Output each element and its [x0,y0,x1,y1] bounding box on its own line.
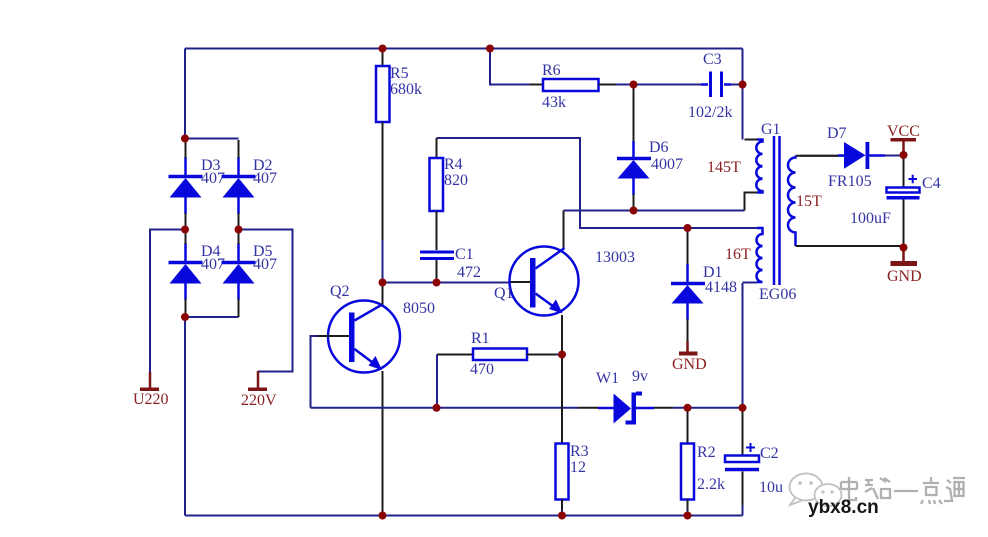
node D6 bottom [630,207,638,215]
wire top rail [185,48,743,50]
diode D2 [222,140,256,229]
node R5 top [379,45,387,53]
wire R6 to C3 node [616,84,701,86]
svg-text:13003: 13003 [595,249,635,266]
svg-text:C2: C2 [760,445,779,462]
svg-text:8050: 8050 [403,300,435,317]
node D1 top [684,224,692,232]
node VCC [900,151,908,159]
svg-text:EG06: EG06 [759,286,796,303]
wire bridge bottom horizontal [185,316,239,318]
svg-text:U220: U220 [133,391,169,408]
resistor R1 [437,349,562,408]
ground under D1 [679,341,698,356]
svg-text:4148: 4148 [705,279,737,296]
resistor R5 [376,49,390,283]
svg-text:100uF: 100uF [850,210,891,227]
node R6 tap [486,45,494,53]
svg-text:W1: W1 [596,370,619,387]
svg-text:Q2: Q2 [330,283,350,300]
diode D6 [617,85,651,211]
power VCC [891,138,917,155]
transformer primary G1 winding [745,140,763,211]
diode D3 [169,140,203,229]
svg-text:15T: 15T [796,193,822,210]
svg-text:D7: D7 [827,125,847,142]
capacitor C2 [725,408,759,516]
svg-text:12: 12 [570,459,586,476]
svg-text:407: 407 [253,170,277,187]
svg-text:Q1: Q1 [494,285,514,302]
capacitor C3 [701,72,743,98]
svg-text:R2: R2 [697,444,716,461]
transformer core [774,136,780,285]
svg-text:C3: C3 [703,51,722,68]
terminal U220 [140,372,159,391]
node Q2 emitter bottom [379,512,387,520]
svg-text:407: 407 [201,256,225,273]
watermark wechat icon [790,474,842,507]
node bridge top [181,135,189,143]
transformer feedback 16T winding [743,228,763,283]
node R2 bottom [684,512,692,520]
diode D4 [169,230,203,317]
resistor R2 [681,408,694,516]
svg-text:9v: 9v [632,368,648,385]
svg-text:43k: 43k [542,94,566,111]
svg-text:10u: 10u [759,479,783,496]
wire left rail upper [184,49,186,140]
node R2 top [684,404,692,412]
svg-text:470: 470 [470,361,494,378]
node C1 bottom [433,279,441,287]
svg-text:R4: R4 [444,156,463,173]
svg-text:R6: R6 [542,62,561,79]
node Q2 collector [379,279,387,287]
node GND C4 [900,244,908,252]
transistor Q1 [510,247,579,355]
svg-text:ybx8.cn: ybx8.cn [808,497,879,518]
node C2 top [739,404,747,412]
watermark text dian-lu-yi-dian-tong (vector strokes) [841,477,965,504]
svg-text:2.2k: 2.2k [697,476,725,493]
svg-text:220V: 220V [241,392,277,409]
node C3 right [739,81,747,89]
wire bottom feedback rail y408 [311,407,579,409]
wire R4 top to 16T feedback [437,138,758,228]
diode D5 [222,230,256,317]
wire Q2 base down [311,336,319,408]
svg-text:472: 472 [457,264,481,281]
svg-text:VCC: VCC [887,123,920,140]
node AC left [181,226,189,234]
ground below C4 [891,248,918,267]
node D6 top [630,81,638,89]
svg-text:C1: C1 [455,246,474,263]
resistor R4 [430,138,444,250]
node R1 left [433,404,441,412]
diode D7 [800,142,904,169]
wire right vertical from top rail to transformer [742,49,744,140]
svg-text:4007: 4007 [651,156,683,173]
wire Q1 collector vertical [563,211,565,249]
terminal 220V [248,371,267,391]
node R3 bottom [558,512,566,520]
svg-text:G1: G1 [761,121,781,138]
node AC right [235,226,243,234]
wire collector rail y211 [564,210,745,212]
capacitor C4 [887,155,920,248]
diode D1 [671,228,705,341]
wire 16T return vertical [742,283,744,408]
resistor R3 [556,355,569,516]
svg-text:680k: 680k [390,81,422,98]
wire AC right to 220V [239,230,293,372]
svg-text:407: 407 [253,256,277,273]
wire bridge top horizontal [185,138,239,140]
svg-text:C4: C4 [922,175,941,192]
wire AC left to U220 [150,230,185,373]
svg-text:R3: R3 [570,443,589,460]
svg-text:GND: GND [672,356,707,373]
wire R6 branch [490,49,530,85]
transformer secondary 15T winding [788,156,903,246]
svg-text:R1: R1 [471,330,490,347]
svg-text:D6: D6 [649,139,669,156]
svg-text:FR105: FR105 [828,173,872,190]
svg-text:407: 407 [201,170,225,187]
svg-text:16T: 16T [725,246,751,263]
svg-text:820: 820 [444,172,468,189]
svg-text:GND: GND [887,268,922,285]
transistor Q2 [318,283,400,516]
node bridge bottom [181,313,189,321]
node Q1 emitter [558,351,566,359]
svg-text:R5: R5 [390,65,409,82]
zener W1 [598,392,654,425]
wire left rail lower [184,317,186,516]
svg-text:145T: 145T [707,159,741,176]
wire base rail y282 [383,282,511,284]
capacitor C1 [420,252,454,283]
resistor R6 [530,79,616,91]
wire bottom rail [185,515,743,517]
svg-text:102/2k: 102/2k [688,104,732,121]
